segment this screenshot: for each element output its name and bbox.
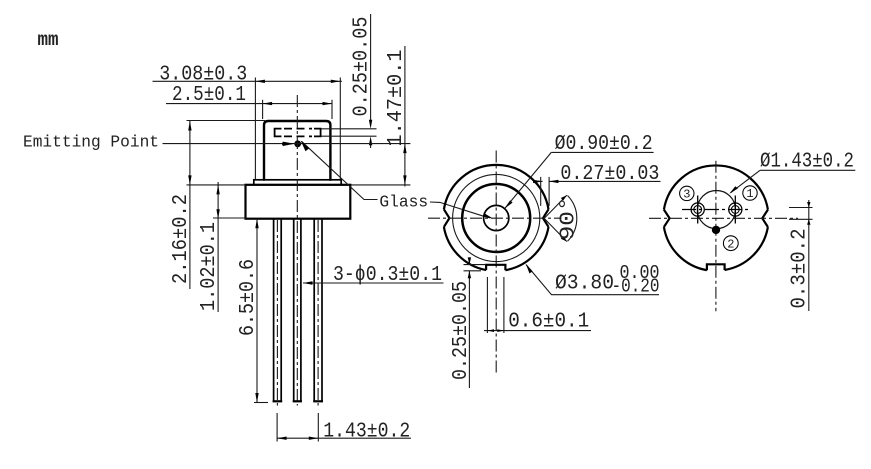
outer circle with notches	[444, 165, 549, 270]
leader from emitting point area to Glass	[302, 141, 378, 199]
bolt circle	[697, 191, 735, 229]
svg-text:2: 2	[727, 237, 734, 251]
dim 0.3±0.2 (rotated)	[789, 229, 812, 309]
vertical centerline	[495, 151, 497, 374]
svg-text:0.25±0.05: 0.25±0.05	[351, 17, 374, 117]
svg-text:1.43±0.2: 1.43±0.2	[323, 421, 410, 444]
svg-text:0.6±0.1: 0.6±0.1	[508, 311, 589, 334]
pin 3	[691, 203, 704, 216]
outer circle with notches	[664, 165, 768, 270]
horizontal centerline	[649, 217, 798, 219]
svg-text:0.27±0.03: 0.27±0.03	[560, 163, 659, 186]
dim 2.16±0.2 (rotated)	[170, 194, 193, 284]
lead 2	[293, 219, 295, 402]
ring circle	[453, 174, 540, 261]
svg-text:Glass: Glass	[379, 194, 428, 213]
thick inner circle	[462, 184, 530, 252]
svg-text:Emitting Point: Emitting Point	[23, 134, 159, 153]
dim 0.25±0.05 (notch depth, rotated)	[450, 281, 473, 380]
svg-text:0.3±0.2: 0.3±0.2	[789, 229, 812, 309]
label 3	[680, 186, 694, 200]
flange rim	[254, 180, 341, 185]
emitting point dot	[294, 140, 301, 147]
lead 1	[273, 219, 275, 402]
bottom notch	[707, 264, 725, 270]
90° angle dimension	[544, 195, 567, 241]
pin row centerline	[682, 209, 751, 211]
cap outline	[264, 121, 330, 181]
lead 3	[313, 219, 315, 402]
dim 1.47±0.1 (rotated)	[385, 50, 408, 147]
svg-text:1: 1	[746, 187, 753, 201]
dim 1.02±0.1 (rotated)	[198, 222, 221, 311]
pin 2 dot	[712, 226, 720, 234]
flange body	[246, 185, 351, 219]
svg-text:mm: mm	[38, 29, 59, 51]
horizontal centerline	[428, 217, 562, 219]
svg-text:3: 3	[683, 188, 690, 202]
pin 1	[729, 203, 742, 216]
dim 0.25±0.05 (glass thickness, rotated)	[351, 17, 374, 117]
vertical centerline	[715, 161, 717, 312]
label 2	[723, 236, 738, 251]
dim 6.5±0.6 (rotated)	[237, 259, 260, 336]
glass window (dashed)	[275, 129, 321, 137]
svg-text:90°: 90°	[558, 196, 581, 240]
leader from Glass to front view center	[430, 202, 490, 218]
aperture circle	[484, 205, 509, 230]
vertical centerline	[296, 95, 298, 406]
bottom notch	[486, 265, 505, 270]
label 1	[743, 186, 757, 200]
svg-text:Ø3.80: Ø3.80	[555, 273, 614, 296]
